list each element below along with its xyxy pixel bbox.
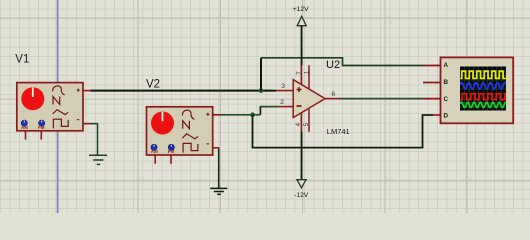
V2 triangle icon: [182, 121, 198, 139]
scope body: [441, 57, 514, 123]
signal generator V2: [147, 107, 221, 164]
U2 pin 3 stub: [276, 90, 293, 92]
scope pin C: [423, 98, 441, 100]
U2 pin 5 stub: [308, 108, 310, 132]
svg-text:FM: FM: [168, 149, 175, 154]
V2 plus mark: [206, 113, 209, 116]
ground under V1: [89, 124, 107, 165]
svg-text:AM: AM: [21, 125, 28, 130]
svg-text:C: C: [444, 96, 449, 103]
V1 sine icon: [53, 86, 65, 95]
scope pin A: [423, 65, 441, 67]
waveform channel A yellow square: [460, 71, 506, 78]
svg-text:6: 6: [331, 91, 335, 98]
V1 square icon: [53, 119, 68, 128]
svg-text:AM: AM: [151, 149, 158, 154]
V2 body: [147, 107, 213, 155]
power symbol -12V arrow: [297, 180, 306, 188]
svg-text:FM: FM: [38, 125, 45, 130]
wire V2 output to junction: [220, 114, 260, 116]
waveform channel C red square: [460, 94, 506, 100]
U2 triangle body: [293, 80, 325, 118]
svg-text:2: 2: [280, 99, 284, 106]
svg-text:-12V: -12V: [294, 192, 309, 199]
wire opamp output to scope C: [339, 98, 424, 100]
wire junction B down branch: [253, 115, 434, 148]
svg-text:LM741: LM741: [327, 127, 350, 136]
U2 pin 2 stub: [278, 106, 294, 108]
svg-text:V2: V2: [146, 78, 160, 90]
U2 pin 4 stub: [300, 113, 302, 132]
U2 pin 1 stub: [308, 65, 310, 89]
V2 FM knob: [168, 144, 174, 150]
sheet border blue line: [57, 0, 59, 213]
wire V1 output to opamp pin3: [90, 90, 276, 92]
U2 pin 6 stub: [324, 98, 340, 100]
major grid lines horizontal: [0, 18, 530, 181]
wire junction up branch: [260, 58, 262, 91]
V1 body: [17, 83, 83, 131]
U2 pin 7 stub: [300, 65, 302, 84]
V1 bottom pin 1: [25, 131, 27, 140]
svg-text:3: 3: [281, 83, 285, 90]
svg-text:U2: U2: [326, 59, 340, 71]
V2 amplitude knob: [151, 112, 174, 135]
wire pin4 down to -12V: [301, 132, 303, 180]
op-amp U2 LM741: [276, 65, 340, 132]
U2 minus input mark: [297, 105, 302, 107]
signal generator V1: [17, 83, 91, 140]
oscilloscope: [423, 57, 513, 123]
V1 amplitude knob: [21, 87, 44, 110]
V2 square icon: [183, 143, 198, 152]
waveform channel B blue sine: [460, 83, 505, 90]
node junction B (V2 net): [250, 112, 255, 117]
V2 sine icon: [182, 110, 194, 119]
scope graticule: [460, 67, 506, 111]
V2 bottom pin 2: [170, 155, 172, 164]
V1 triangle icon: [53, 97, 69, 115]
wire +12V down to pin7: [301, 26, 303, 66]
ground under V2: [210, 148, 227, 194]
svg-text:V1: V1: [15, 53, 29, 65]
wire top horizontal to scope A: [261, 58, 424, 66]
V1 output - pin: [83, 123, 91, 125]
power symbol +12V arrow: [297, 16, 306, 25]
scope pin B: [423, 82, 441, 84]
V1 output + pin: [83, 90, 91, 92]
V2 minus mark: [207, 143, 210, 145]
V1 plus mark: [77, 89, 80, 92]
wire step up to opamp pin2: [259, 107, 261, 115]
wire to opamp pin2: [260, 106, 278, 108]
scope pin D: [433, 114, 441, 116]
V1 FM knob: [39, 120, 45, 126]
V1 AM knob: [21, 120, 27, 126]
V2 output + pin: [213, 114, 221, 116]
svg-text:B: B: [444, 79, 449, 86]
svg-text:+12V: +12V: [293, 6, 309, 13]
waveform channel D green sine: [460, 102, 505, 107]
major grid lines vertical: [56, 0, 467, 213]
V1 bottom pin 2: [40, 131, 42, 140]
svg-text:A: A: [444, 62, 449, 69]
V2 bottom pin 1: [154, 155, 156, 164]
V2 output - pin: [213, 147, 220, 149]
U2 plus input mark: [297, 87, 302, 92]
svg-text:D: D: [444, 113, 449, 120]
node junction A (V1 net): [259, 88, 264, 93]
V1 minus mark: [77, 119, 80, 121]
scope screen: [460, 67, 506, 111]
V2 AM knob: [151, 144, 157, 150]
